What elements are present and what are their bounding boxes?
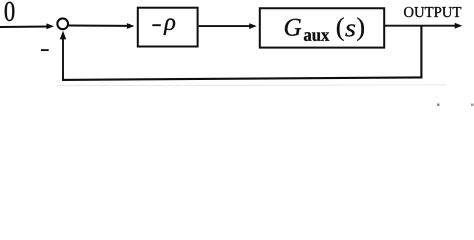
label rho (164, 18, 176, 35)
wire: feedback takeoff vertical (right) (420, 26, 422, 78)
label G of Gaux(s) (285, 19, 301, 36)
arrowhead into summing junction (46, 23, 54, 29)
arrowhead into block -rho (127, 23, 135, 29)
label minus of -rho (152, 24, 161, 26)
arrowhead into block Gaux (249, 23, 257, 29)
block Gaux box (260, 8, 384, 47)
minus sign at summing junction (41, 49, 49, 51)
wire: output line (385, 25, 455, 27)
scan artifact: specks bottom right (437, 104, 440, 107)
node label 0 (reference input) (5, 2, 15, 21)
wire: summing junction to block -rho (68, 25, 129, 27)
wire: feedback bottom horizontal (62, 77, 422, 80)
wire: block -rho to block Gaux (199, 25, 251, 27)
arrowhead into summing junction bottom (60, 31, 66, 40)
wire: input line into summing junction (0, 26, 49, 29)
label s (345, 24, 355, 36)
arrowhead output (455, 23, 463, 29)
label OUTPUT (404, 7, 461, 17)
label open paren (337, 17, 344, 41)
block -rho box (138, 8, 198, 47)
summing junction circle (57, 18, 68, 29)
scan artifact: faint horizontal line (57, 84, 446, 87)
wire: feedback vertical into summing junction bottom (62, 37, 64, 80)
label close paren (357, 17, 364, 41)
label aux subscript (304, 32, 329, 41)
